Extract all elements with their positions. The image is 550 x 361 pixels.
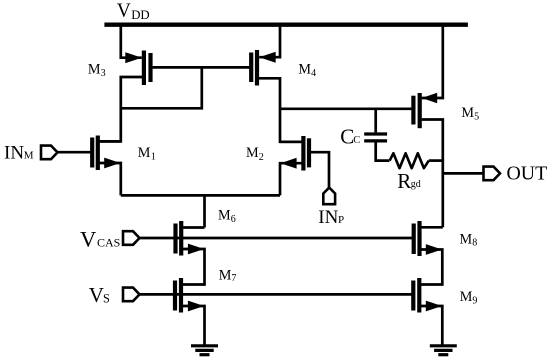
svg-text:M: M bbox=[246, 145, 259, 161]
wire diff pair common source bbox=[121, 194, 280, 197]
svg-text:M: M bbox=[219, 268, 232, 284]
wire M1 drain bbox=[98, 140, 121, 143]
wire M8 drain bbox=[420, 226, 443, 229]
M4 label bbox=[298, 62, 316, 80]
M6 source arrow bbox=[188, 244, 204, 255]
wire M6 source to M7 drain bbox=[181, 249, 205, 285]
capacitor Cc top stub bbox=[374, 109, 377, 133]
terminal VS bbox=[123, 288, 140, 302]
svg-text:DD: DD bbox=[131, 8, 149, 22]
transistor M3 channel bar bbox=[142, 51, 146, 86]
svg-text:M: M bbox=[298, 62, 311, 78]
M9 source arrow bbox=[426, 301, 442, 312]
wire second stage (M4 drain to M5 gate) bbox=[280, 107, 412, 110]
M5 source arrow bbox=[422, 93, 438, 104]
VDD rail bbox=[104, 23, 468, 27]
transistor M6 gate bar bbox=[173, 224, 177, 254]
wire M2 source bbox=[280, 163, 303, 195]
terminal VCAS bbox=[123, 231, 140, 245]
capacitor C1 bottom plate bbox=[364, 139, 387, 142]
M5 label bbox=[461, 105, 479, 123]
svg-text:V: V bbox=[117, 0, 131, 21]
M9 label bbox=[460, 289, 478, 306]
svg-text:M: M bbox=[460, 231, 473, 247]
svg-text:IN: IN bbox=[4, 143, 24, 164]
wire common source to M6 drain bbox=[203, 195, 206, 227]
svg-text:3: 3 bbox=[101, 68, 106, 79]
ground (left) bbox=[191, 346, 218, 355]
svg-text:M: M bbox=[218, 207, 231, 223]
wire M4 drain to M2 drain bbox=[257, 78, 301, 142]
transistor M9 gate bar bbox=[411, 281, 415, 311]
svg-text:4: 4 bbox=[311, 68, 316, 79]
M6 label bbox=[218, 207, 236, 225]
svg-text:OUT: OUT bbox=[507, 163, 548, 185]
wire M9 source to ground bbox=[419, 306, 442, 346]
transistor M6 channel bar bbox=[179, 221, 183, 256]
INP label bbox=[318, 207, 344, 228]
svg-text:5: 5 bbox=[474, 111, 479, 122]
wire M1 source bbox=[98, 163, 121, 195]
svg-text:M: M bbox=[461, 105, 474, 121]
svg-text:S: S bbox=[103, 291, 110, 305]
wire M3 drain to M1 drain bbox=[100, 77, 144, 141]
wire M5 drain / output node vertical bbox=[422, 120, 443, 228]
M2 label bbox=[246, 145, 264, 163]
transistor M7 gate bar bbox=[173, 281, 177, 311]
svg-text:6: 6 bbox=[231, 214, 236, 225]
wire M8 source to M9 drain bbox=[419, 250, 442, 285]
OUT label bbox=[507, 163, 548, 185]
M1 label bbox=[138, 145, 156, 163]
terminal OUT bbox=[484, 167, 501, 181]
transistor M9 channel bar bbox=[417, 278, 421, 313]
Cc label bbox=[340, 124, 360, 148]
Rgd label bbox=[397, 169, 421, 193]
transistor M2 channel bar bbox=[301, 136, 305, 171]
transistor M1 gate bar bbox=[90, 138, 94, 168]
wire M2 drain bbox=[280, 140, 303, 143]
svg-text:M: M bbox=[138, 145, 151, 161]
wire VDD to M5 source bbox=[422, 25, 443, 98]
M8 label bbox=[460, 231, 478, 248]
M7 label bbox=[219, 268, 237, 285]
svg-text:V: V bbox=[89, 283, 104, 307]
transistor M5 channel bar bbox=[418, 93, 422, 128]
wire M7 source to ground bbox=[181, 306, 205, 346]
terminal INP bbox=[323, 188, 335, 205]
M2 source arrow bbox=[280, 158, 296, 169]
wire INM to M1 gate bbox=[57, 151, 92, 154]
wire Rgd to output node bbox=[429, 159, 443, 162]
wire mirror loop (M3 drain to gates) bbox=[121, 67, 202, 108]
transistor M8 gate bar bbox=[412, 224, 416, 255]
M1 source arrow bbox=[104, 158, 120, 169]
wire VS to M7 and M9 gates bbox=[140, 293, 414, 296]
svg-text:9: 9 bbox=[472, 296, 477, 307]
svg-text:1: 1 bbox=[151, 152, 156, 163]
M4 source arrow bbox=[259, 52, 276, 63]
VS label bbox=[89, 283, 110, 307]
transistor M5 gate bar bbox=[411, 96, 415, 125]
capacitor C1 top plate bbox=[364, 132, 387, 135]
svg-text:M: M bbox=[24, 150, 34, 162]
transistor M1 channel bar bbox=[96, 136, 100, 171]
M3 source arrow bbox=[125, 52, 142, 63]
svg-text:M: M bbox=[460, 289, 473, 305]
svg-text:V: V bbox=[80, 226, 96, 251]
M8 source arrow bbox=[426, 244, 442, 255]
ground (right) bbox=[430, 346, 457, 355]
svg-text:IN: IN bbox=[318, 207, 338, 228]
INM label bbox=[4, 143, 34, 164]
transistor M8 channel bar bbox=[417, 221, 421, 256]
wire Cc bottom to Rgd bbox=[376, 141, 390, 161]
svg-text:2: 2 bbox=[259, 152, 264, 163]
transistor M4 channel bar bbox=[255, 50, 259, 86]
svg-text:gd: gd bbox=[411, 179, 421, 190]
wire VCAS to M6 and M8 gates bbox=[140, 237, 414, 240]
svg-text:P: P bbox=[338, 214, 344, 226]
terminal INM bbox=[41, 146, 58, 160]
transistor M3 gate bar bbox=[148, 53, 152, 82]
svg-text:M: M bbox=[88, 62, 101, 78]
transistor M2 gate bar bbox=[307, 138, 311, 167]
wire VDD to M3 source bbox=[121, 25, 142, 58]
resistor Rgd bbox=[390, 153, 429, 168]
M3 label bbox=[88, 62, 106, 80]
svg-text:C: C bbox=[353, 135, 360, 146]
wire M3 gate to M4 gate bbox=[151, 66, 252, 69]
wire to OUT terminal bbox=[443, 172, 484, 175]
svg-text:8: 8 bbox=[472, 238, 477, 249]
svg-text:CAS: CAS bbox=[97, 236, 120, 250]
wire M6 drain bbox=[181, 226, 204, 229]
svg-text:7: 7 bbox=[231, 273, 236, 284]
wire M2 gate to INP bbox=[309, 152, 329, 187]
svg-text:R: R bbox=[397, 169, 411, 193]
wire VDD to M4 source bbox=[259, 25, 280, 58]
VCAS label bbox=[80, 226, 120, 251]
transistor M4 gate bar bbox=[249, 53, 253, 83]
VDD label bbox=[117, 0, 150, 22]
M7 source arrow bbox=[188, 301, 204, 312]
transistor M7 channel bar bbox=[179, 278, 183, 313]
